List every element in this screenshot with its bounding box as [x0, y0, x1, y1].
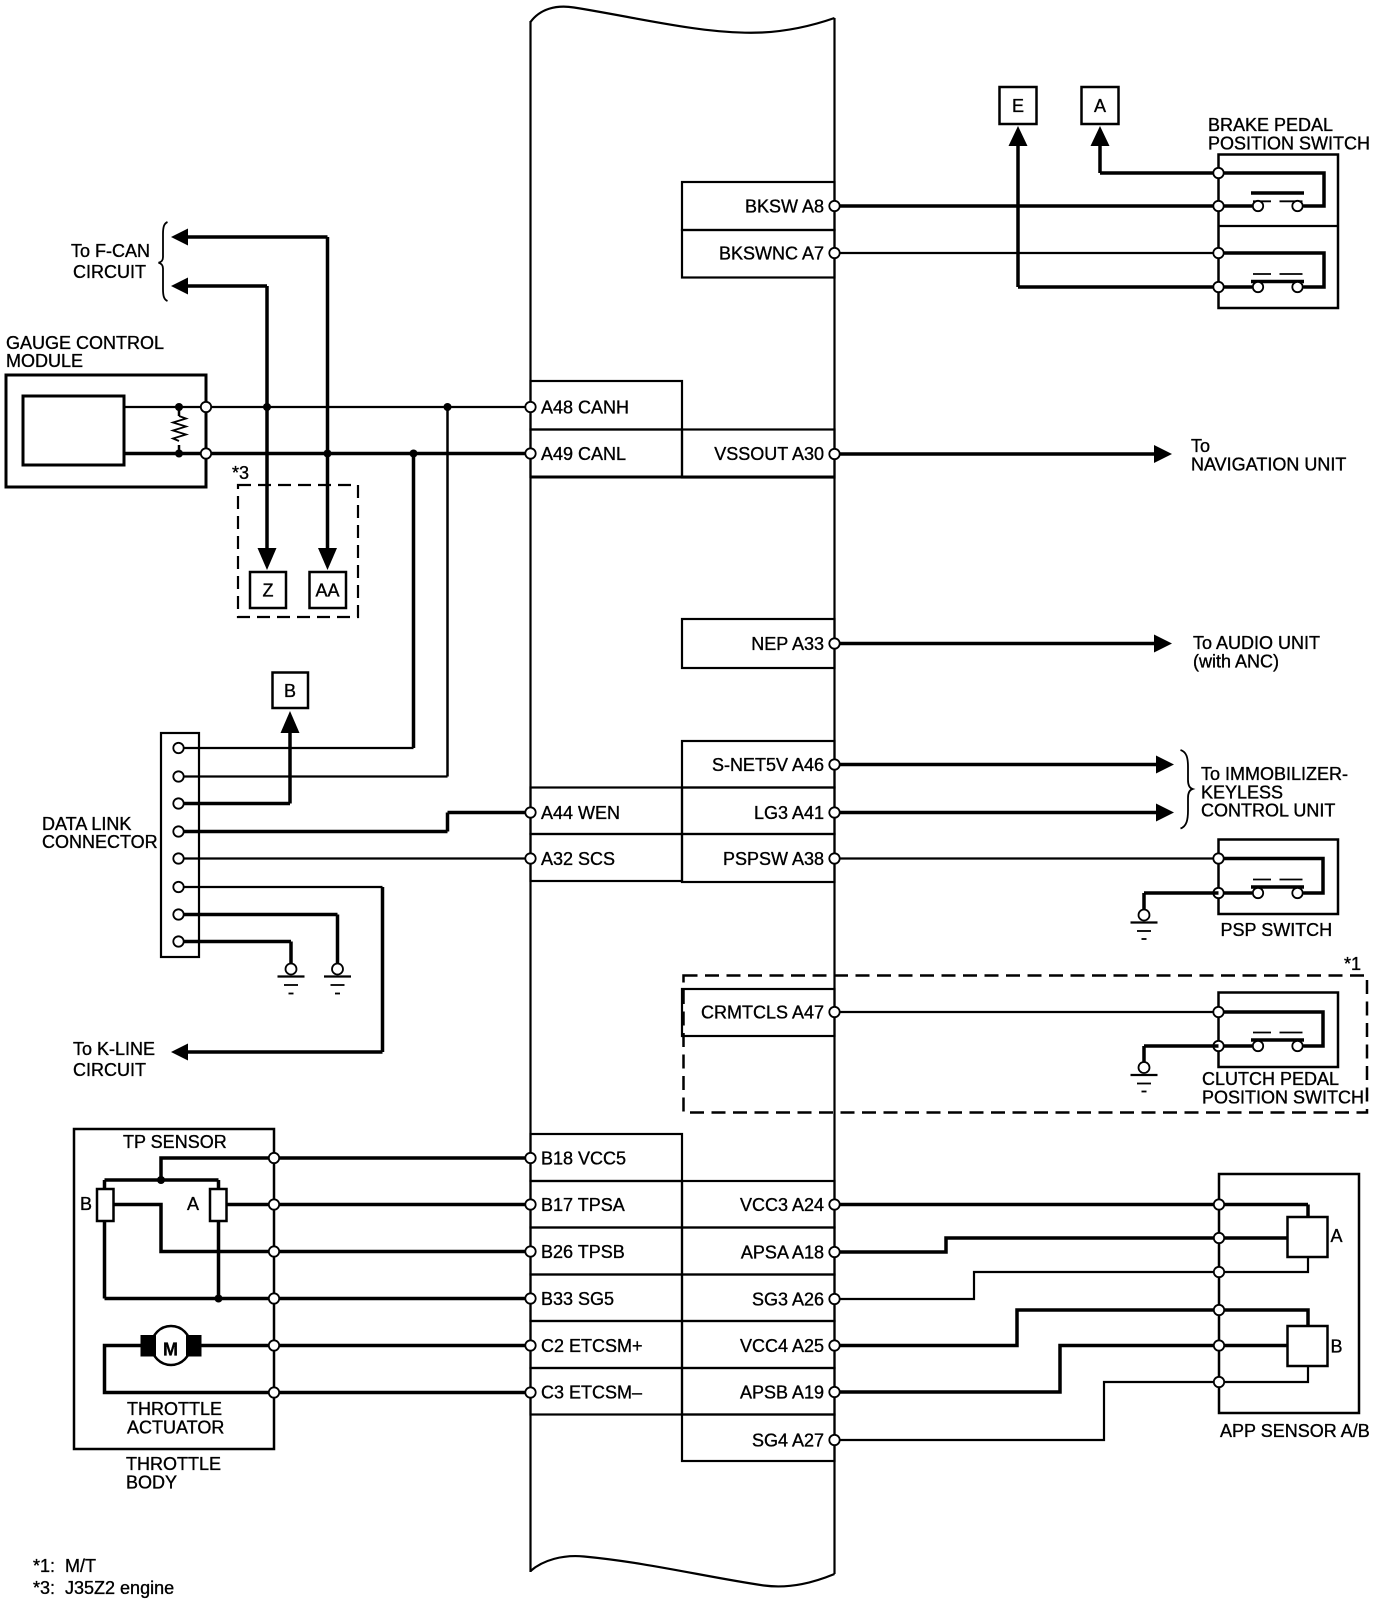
potentiometer A: [210, 1189, 227, 1221]
wire DLC pin7 to ground: [183, 913, 338, 917]
junction dot resistor bottom: [175, 450, 183, 458]
node gauge box CANH: [201, 402, 211, 412]
svg-text:SG3 A26: SG3 A26: [752, 1290, 824, 1310]
wire CANH branch down to Z: [265, 286, 269, 551]
dashed box *3: [238, 485, 358, 617]
pin box BKSWNC A7: [682, 230, 835, 278]
ground G1: [286, 964, 297, 975]
svg-text:THROTTLE: THROTTLE: [126, 1454, 221, 1474]
module torn-paper top edge: [531, 7, 835, 33]
pin box VSSOUT A30: [682, 430, 835, 478]
pin box CRMTCLS A47: [682, 989, 835, 1036]
ground clutch: [1139, 1062, 1150, 1073]
pin box SG4 A27: [682, 1415, 835, 1462]
svg-text:BODY: BODY: [126, 1473, 177, 1493]
svg-text:B: B: [284, 681, 296, 701]
ECM/PCM module body right edge: [833, 18, 835, 1574]
svg-text:C3 ETCSM–: C3 ETCSM–: [541, 1383, 642, 1403]
wire APSA A18 to APP sensor A: [835, 1238, 1288, 1252]
data link connector body: [161, 733, 199, 957]
pin box VCC3 A24: [682, 1181, 835, 1228]
svg-text:PSPSW A38: PSPSW A38: [723, 849, 824, 869]
svg-text:TP SENSOR: TP SENSOR: [123, 1132, 227, 1152]
wire BKSW A8 to brake switch: [835, 204, 1219, 208]
wire S-NET5V A46 to immobilizer: [835, 763, 1159, 767]
svg-text:M: M: [163, 1340, 178, 1360]
module torn-paper bottom edge: [531, 1556, 835, 1586]
wire A to brake switch NO contact: [1091, 126, 1110, 146]
svg-text:B: B: [1331, 1337, 1343, 1357]
wire CANH gauge to module: [124, 406, 531, 408]
junction dot CANH at x267: [263, 403, 271, 411]
svg-text:To K-LINE: To K-LINE: [73, 1039, 155, 1059]
resistor R termination: [178, 407, 181, 416]
svg-text:To: To: [1191, 436, 1210, 456]
pin box APSB A19: [682, 1368, 835, 1415]
svg-text:BRAKE PEDAL: BRAKE PEDAL: [1208, 115, 1333, 135]
svg-text:VCC3 A24: VCC3 A24: [740, 1195, 824, 1215]
wire PSPSW A38 to PSP switch: [835, 857, 1219, 859]
pin box C3 ETCSM-: [531, 1368, 683, 1415]
wire DLC pin4 to A44 WEN: [183, 830, 448, 834]
svg-text:BKSW A8: BKSW A8: [745, 197, 824, 217]
throttle body terminals: [269, 1153, 279, 1163]
svg-text:A: A: [187, 1194, 199, 1214]
PSP switch element (closed): [1219, 859, 1324, 894]
wire NEP A33 to audio unit: [835, 642, 1157, 646]
wire LG3 A41 to immobilizer: [835, 811, 1159, 815]
svg-text:To AUDIO UNIT: To AUDIO UNIT: [1193, 633, 1320, 653]
pin box C2 ETCSM+: [531, 1321, 683, 1368]
wire PSP switch to ground: [1144, 891, 1219, 895]
connector B: [273, 673, 309, 709]
pin box LG3 A41: [682, 788, 835, 835]
svg-text:B: B: [80, 1194, 92, 1214]
pin box B26 TPSB: [531, 1228, 683, 1275]
svg-text:*3: *3: [232, 463, 249, 483]
pin box BKSW A8: [682, 182, 835, 230]
svg-text:AA: AA: [315, 581, 339, 601]
wire VSSOUT A30 to navigation unit: [835, 452, 1157, 456]
svg-text:NEP A33: NEP A33: [751, 634, 824, 654]
brace immobilizer: [1181, 750, 1193, 829]
APP sensor A/B body: [1219, 1174, 1359, 1413]
svg-text:A48 CANH: A48 CANH: [541, 398, 629, 418]
clutch switch element (closed): [1219, 1012, 1324, 1046]
svg-text:(with ANC): (with ANC): [1193, 652, 1279, 672]
svg-text:CRMTCLS A47: CRMTCLS A47: [701, 1003, 824, 1023]
svg-text:*3: J35Z2 engine: *3: J35Z2 engine: [33, 1578, 174, 1598]
pin box S-NET5V A46: [682, 741, 835, 788]
pin box APSA A18: [682, 1228, 835, 1275]
brace F-CAN: [159, 222, 168, 301]
pin box A44 WEN: [531, 788, 683, 835]
svg-text:A: A: [1331, 1226, 1343, 1246]
wire B17 TPSA from pot A wiper: [227, 1203, 531, 1207]
wire CRMTCLS A47 to clutch switch: [835, 1011, 1219, 1013]
wire DLC pin5 to A32 SCS: [183, 857, 531, 859]
svg-text:PSP SWITCH: PSP SWITCH: [1221, 920, 1333, 940]
svg-text:SG4 A27: SG4 A27: [752, 1431, 824, 1451]
svg-text:NAVIGATION UNIT: NAVIGATION UNIT: [1191, 455, 1346, 475]
gauge control module outer box: [6, 375, 206, 487]
APP sensor terminals: [1214, 1199, 1224, 1209]
pin box SG3 A26: [682, 1275, 835, 1322]
wire CANL branch down to DLC pin1: [412, 454, 416, 749]
svg-text:VCC4 A25: VCC4 A25: [740, 1336, 824, 1356]
gauge control module inner unit: [23, 396, 124, 465]
connector A: [1082, 87, 1119, 124]
pin box B18 VCC5: [531, 1134, 683, 1181]
pin box NEP A33: [682, 619, 835, 668]
wire DLC pin8 to ground: [183, 940, 291, 944]
svg-text:A49 CANL: A49 CANL: [541, 444, 626, 464]
wire DLC pin2 to CANH branch: [183, 775, 448, 777]
svg-text:APP SENSOR A/B: APP SENSOR A/B: [1220, 1421, 1370, 1441]
junction dot CANL at x327: [324, 450, 332, 458]
module pin terminals left edge: [525, 402, 535, 412]
wire APSB A19 to APP sensor B: [835, 1346, 1288, 1393]
ground PSP: [1139, 910, 1150, 921]
brake pedal position switch body: [1219, 155, 1339, 309]
wire CANL gauge to module: [124, 452, 531, 456]
ground G2: [332, 964, 343, 975]
wire DLC pin6 to K-LINE: [183, 886, 383, 888]
wire DLC pin1 to CANL branch: [183, 747, 414, 749]
svg-text:VSSOUT A30: VSSOUT A30: [714, 444, 824, 464]
svg-text:POSITION SWITCH: POSITION SWITCH: [1202, 1088, 1364, 1108]
wire E to brake switch NC contact: [1009, 126, 1028, 146]
svg-text:ACTUATOR: ACTUATOR: [127, 1418, 224, 1438]
potentiometer B: [97, 1189, 114, 1221]
svg-text:MODULE: MODULE: [6, 351, 83, 371]
DLC pins: [173, 743, 183, 753]
pin box B33 SG5: [531, 1275, 683, 1322]
svg-text:APSA A18: APSA A18: [741, 1243, 824, 1263]
pin box A32 SCS: [531, 834, 683, 881]
pin box PSPSW A38: [682, 834, 835, 882]
node gauge box CANL: [201, 448, 211, 458]
wire CANH branch down to DLC pin2: [446, 407, 449, 777]
svg-text:CIRCUIT: CIRCUIT: [73, 262, 146, 282]
connector E: [1000, 87, 1037, 124]
svg-text:*1: *1: [1344, 954, 1361, 974]
svg-text:CLUTCH PEDAL: CLUTCH PEDAL: [1202, 1069, 1339, 1089]
svg-text:BKSWNC A7: BKSWNC A7: [719, 244, 824, 264]
svg-text:S-NET5V A46: S-NET5V A46: [712, 755, 824, 775]
TP sensor supply bus: [105, 1178, 219, 1182]
svg-text:To F-CAN: To F-CAN: [71, 241, 150, 261]
junction dot resistor top: [175, 403, 183, 411]
ECM/PCM module body left edge: [529, 21, 531, 1572]
svg-text:B26 TPSB: B26 TPSB: [541, 1242, 625, 1262]
svg-text:*1: M/T: *1: M/T: [33, 1556, 96, 1576]
svg-text:POSITION SWITCH: POSITION SWITCH: [1208, 134, 1370, 154]
PSP switch body: [1219, 840, 1339, 915]
throttle body box: [74, 1129, 274, 1449]
svg-text:To IMMOBILIZER-: To IMMOBILIZER-: [1201, 764, 1348, 784]
wire F-CAN arrow 1: [184, 235, 328, 239]
svg-text:E: E: [1012, 96, 1024, 116]
svg-text:APSB A19: APSB A19: [740, 1383, 824, 1403]
APP sensor A element: [1288, 1217, 1328, 1257]
pin box A48 CANH: [531, 381, 683, 430]
wire VCC3 A24 to APP sensor A: [835, 1203, 1309, 1207]
wire F-CAN arrow 2: [184, 284, 267, 288]
wire BKSWNC A7 to brake switch: [835, 252, 1219, 254]
clutch pedal position switch body: [1219, 993, 1339, 1068]
svg-text:THROTTLE: THROTTLE: [127, 1399, 222, 1419]
wire C2 ETCSM+ to motor: [202, 1344, 531, 1348]
pin box VCC4 A25: [682, 1321, 835, 1368]
wire pot B wiper to B26 TPSB: [114, 1205, 275, 1252]
wire SG3 A26 from APP sensor A: [835, 1257, 1309, 1299]
svg-text:A32 SCS: A32 SCS: [541, 849, 615, 869]
svg-text:CIRCUIT: CIRCUIT: [73, 1060, 146, 1080]
throttle actuator motor M1: [152, 1326, 191, 1365]
svg-text:A44 WEN: A44 WEN: [541, 803, 620, 823]
svg-text:CONNECTOR: CONNECTOR: [42, 832, 158, 852]
svg-text:C2 ETCSM+: C2 ETCSM+: [541, 1336, 643, 1356]
wire clutch switch to ground: [1144, 1044, 1219, 1048]
wire B18 VCC5 to TP sensor: [274, 1156, 531, 1160]
svg-text:B17 TPSA: B17 TPSA: [541, 1195, 625, 1215]
brake switch lower element (closed): [1219, 253, 1325, 287]
connector Z: [250, 572, 286, 608]
APP sensor B element: [1288, 1326, 1328, 1366]
svg-text:Z: Z: [263, 581, 274, 601]
svg-text:KEYLESS: KEYLESS: [1201, 783, 1283, 803]
wire CANL branch down to AA: [326, 237, 330, 551]
svg-text:LG3 A41: LG3 A41: [754, 803, 824, 823]
svg-text:CONTROL UNIT: CONTROL UNIT: [1201, 801, 1335, 821]
pin box A49 CANL: [531, 430, 683, 478]
svg-text:DATA LINK: DATA LINK: [42, 814, 131, 834]
wire VCC4 A25 to APP sensor B: [835, 1310, 1309, 1346]
svg-text:B33 SG5: B33 SG5: [541, 1289, 614, 1309]
brake switch upper element (open): [1219, 173, 1325, 206]
module pin terminals right edge: [829, 201, 839, 211]
wire SG4 A27 from APP sensor B: [835, 1366, 1309, 1440]
pin box B17 TPSA: [531, 1181, 683, 1228]
dashed box *1 M/T: [684, 976, 1368, 1113]
connector AA: [310, 572, 347, 608]
wire DLC pin3 to B arrow: [281, 711, 300, 733]
wire B33 SG5 ground bus: [105, 1297, 531, 1301]
svg-text:B18 VCC5: B18 VCC5: [541, 1149, 626, 1169]
svg-text:A: A: [1094, 96, 1106, 116]
wire motor to C3 ETCSM-: [105, 1346, 531, 1393]
svg-text:GAUGE CONTROL: GAUGE CONTROL: [6, 333, 164, 353]
